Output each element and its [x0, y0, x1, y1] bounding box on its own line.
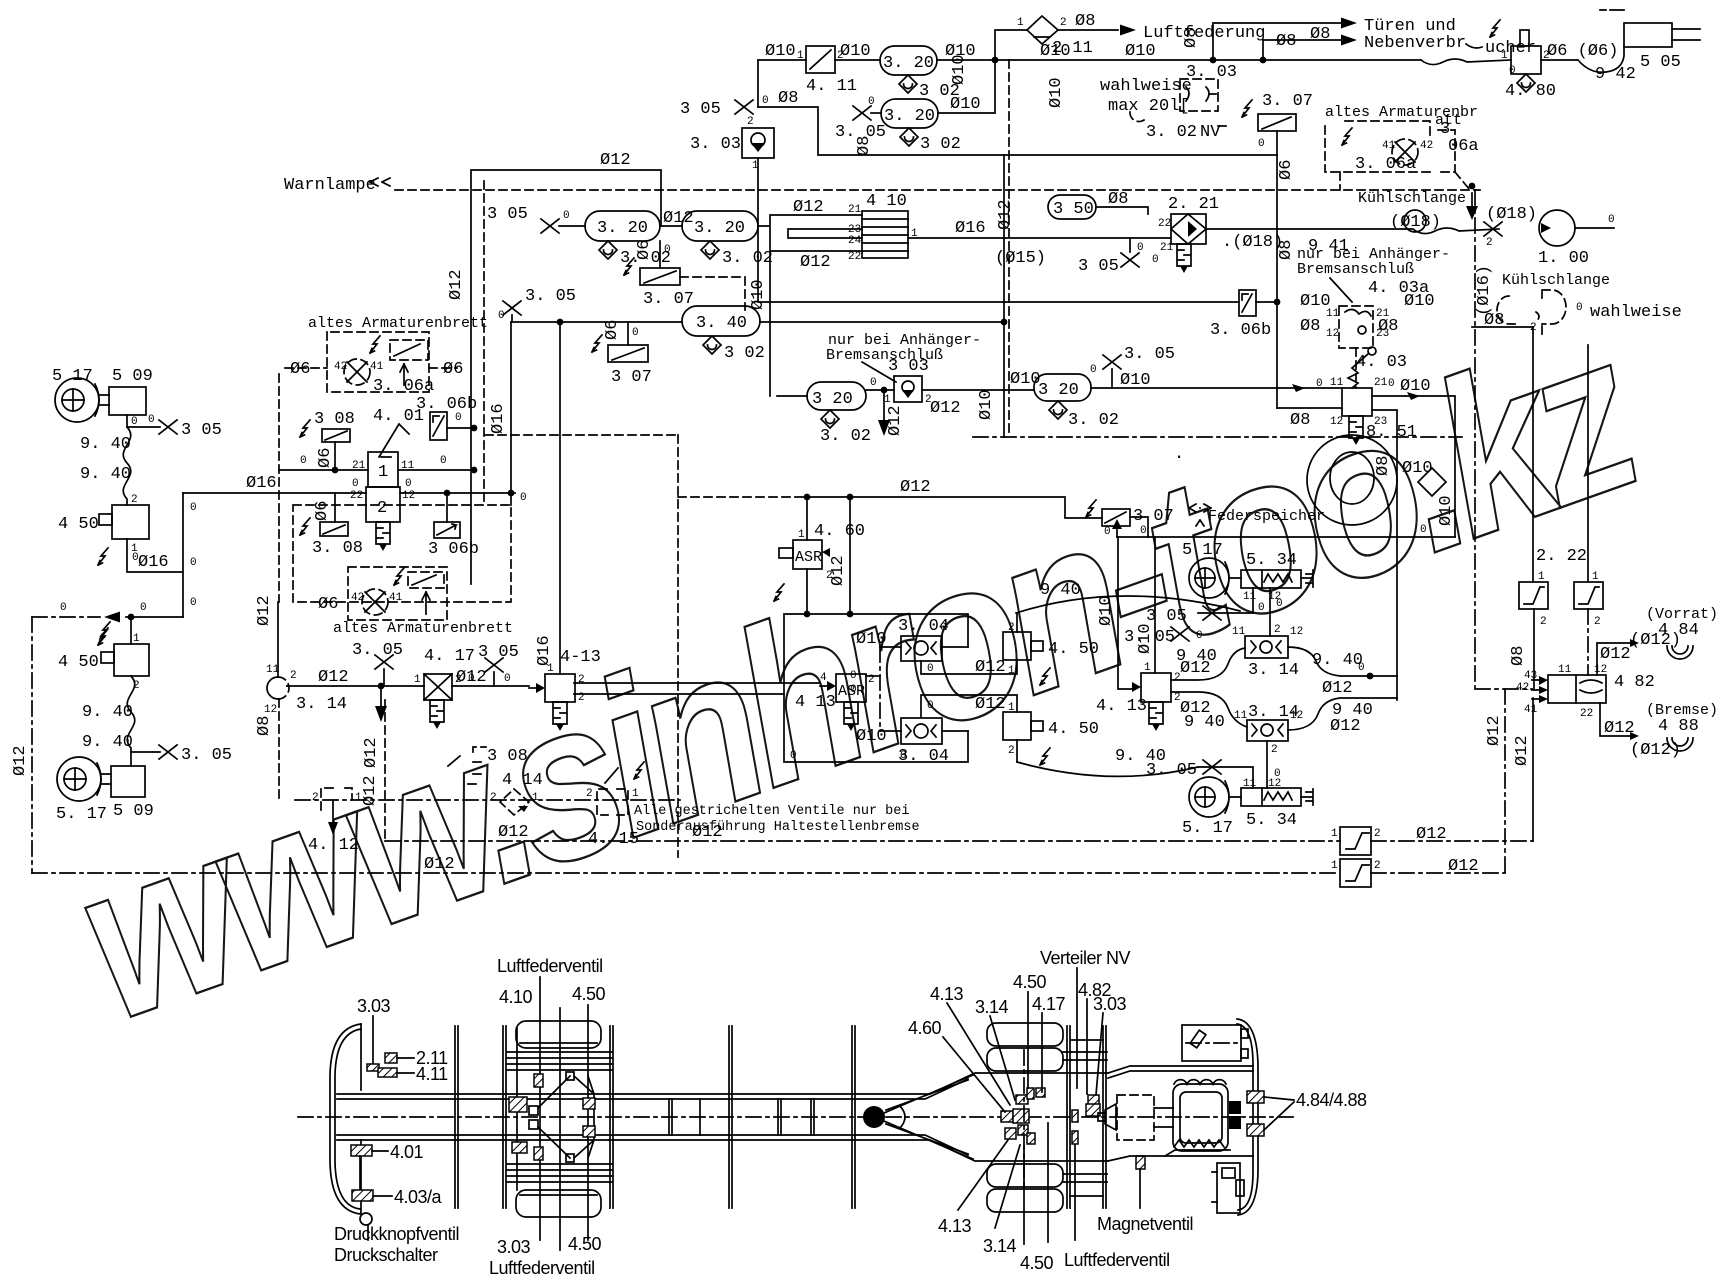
svg-text:12: 12 [1290, 626, 1303, 638]
valve 4.11 [806, 46, 835, 73]
svg-text:21: 21 [1160, 242, 1174, 254]
right spring lines [1063, 1040, 1107, 1196]
svg-text:0: 0 [140, 602, 147, 614]
svg-text:3. 07: 3. 07 [643, 290, 694, 309]
hook vorrat [1667, 646, 1693, 659]
svg-text:4.50: 4.50 [1013, 972, 1047, 992]
rails to 4.82 [1475, 190, 1532, 689]
svg-text:Ø6: Ø6 [443, 360, 463, 379]
svg-text:Ø12: Ø12 [424, 855, 455, 874]
test point 3.05g [131, 751, 160, 753]
federspeicher chamber a [1307, 435, 1397, 525]
svg-text:12: 12 [402, 490, 415, 502]
lamp 3.06a-left [344, 359, 370, 385]
svg-text:2: 2 [586, 788, 593, 800]
dashdot rail y800 [295, 799, 680, 801]
svg-text:9. 40: 9. 40 [80, 465, 131, 484]
valve 3.07d [1102, 509, 1130, 526]
svg-text:3. 06b: 3. 06b [416, 395, 477, 414]
cab bottom line [1108, 1150, 1253, 1161]
check valve 2.11 [1027, 16, 1058, 44]
valve 13.08 [468, 747, 486, 784]
svg-text:Ø10: Ø10 [856, 727, 887, 746]
node dot warn right [1469, 183, 1476, 190]
svg-text:2: 2 [1374, 860, 1381, 872]
svg-text:3. 05: 3. 05 [1146, 761, 1197, 780]
svg-text:42: 42 [1516, 682, 1529, 694]
svg-text:4.03/a: 4.03/a [394, 1187, 443, 1207]
central vertical solid [1003, 155, 1005, 437]
compressor 1.00 [1539, 210, 1575, 246]
svg-text:2. 22: 2. 22 [1536, 547, 1587, 566]
svg-text:Ø12: Ø12 [1448, 857, 1479, 876]
battery box [1217, 1163, 1240, 1213]
svg-text:Ø12: Ø12 [600, 151, 631, 170]
pump 5.17d [1189, 777, 1229, 817]
svg-text:2: 2 [490, 792, 497, 804]
svg-text:0: 0 [520, 492, 527, 504]
svg-text:22: 22 [1158, 218, 1171, 230]
svg-text:(Ø18): (Ø18) [1486, 205, 1537, 224]
svg-text:Ø8: Ø8 [1300, 317, 1320, 336]
wire to diamond 2.11 [995, 30, 1118, 60]
pump 5.17b [57, 757, 101, 801]
svg-text:3.03: 3.03 [497, 1237, 531, 1257]
svg-text:Kühlschlange: Kühlschlange [1502, 272, 1610, 289]
svg-text:Ø12: Ø12 [900, 478, 931, 497]
wire O16 bus y493 [183, 492, 515, 494]
svg-text:11: 11 [1330, 377, 1344, 389]
svg-text:0: 0 [850, 684, 857, 696]
svg-text:Federspeicher: Federspeicher [1208, 508, 1325, 525]
wire vorrat [1597, 643, 1630, 675]
svg-text:3.03: 3.03 [357, 996, 391, 1016]
svg-text:0: 0 [132, 552, 139, 564]
svg-text:1: 1 [378, 463, 388, 482]
svg-text:1: 1 [1008, 665, 1015, 677]
svg-text:Ø8: Ø8 [1276, 32, 1296, 51]
rear tandem wheels right [987, 1023, 1063, 1046]
svg-text:3 50: 3 50 [1053, 200, 1094, 219]
wires 4.13c feeds [1118, 537, 1155, 689]
svg-text:4 13: 4 13 [795, 693, 836, 712]
svg-text:Ø6: Ø6 [635, 240, 654, 260]
muffler 8.51 [1349, 416, 1363, 445]
drain 3.02a [899, 75, 917, 93]
svg-text:Bremsanschluß: Bremsanschluß [1297, 261, 1414, 278]
svg-text:Ø8: Ø8 [1509, 646, 1528, 666]
axle dashdot right [1023, 1050, 1025, 1188]
svg-text:Ø8: Ø8 [1075, 12, 1095, 31]
svg-text:0: 0 [1137, 242, 1144, 254]
valve 3.07b [640, 268, 680, 285]
svg-text:Ø12: Ø12 [1416, 825, 1447, 844]
svg-text:1: 1 [1008, 702, 1015, 714]
drain 3.02b [900, 128, 918, 146]
svg-text:3. 20: 3. 20 [694, 219, 745, 238]
drain 3.02e [703, 336, 721, 354]
valve 3.14R2 [1247, 720, 1288, 741]
svg-text:4 82: 4 82 [1614, 673, 1655, 692]
wire manifold loop [784, 614, 968, 762]
svg-text:Ø10: Ø10 [1437, 495, 1456, 526]
wire O12 mid [807, 497, 1102, 518]
valve 3.40 [682, 306, 760, 336]
svg-text:0: 0 [870, 377, 877, 389]
svg-text:0: 0 [455, 412, 462, 424]
drain 3.02c [599, 241, 617, 259]
svg-text:12: 12 [1326, 328, 1339, 340]
valve 3.06b-right [1239, 290, 1256, 316]
wire step [127, 493, 183, 617]
switch 3.06a-left [390, 340, 428, 360]
svg-text:Magnetventil: Magnetventil [1097, 1214, 1193, 1234]
svg-text:Ø10: Ø10 [1120, 371, 1151, 390]
svg-text:1: 1 [532, 792, 539, 804]
svg-text:0: 0 [1152, 254, 1159, 266]
svg-text:4. 50: 4. 50 [1048, 720, 1099, 739]
svg-text:0: 0 [352, 478, 359, 490]
svg-text:4.13: 4.13 [930, 984, 964, 1004]
svg-text:2: 2 [377, 499, 387, 518]
valve ASR 4.13b [836, 674, 866, 702]
check valve 3.03a [742, 128, 774, 158]
svg-text:12: 12 [1330, 416, 1343, 428]
valve 3.20c [585, 211, 660, 241]
hose 3.14R2 out [1288, 698, 1397, 730]
svg-text:Ø10: Ø10 [1010, 370, 1041, 389]
svg-text:Ø8: Ø8 [255, 716, 274, 736]
engine block [1173, 1084, 1228, 1151]
frame rail top [337, 1073, 1108, 1099]
svg-text:Ø16: Ø16 [489, 403, 508, 434]
svg-text:Ø12: Ø12 [800, 253, 831, 272]
hatch 4.84 [1247, 1091, 1264, 1103]
svg-text:4 50: 4 50 [58, 515, 99, 534]
svg-text:Ø10: Ø10 [840, 42, 871, 61]
hatch 4.01 [351, 1145, 372, 1156]
svg-text:5. 17: 5. 17 [56, 805, 107, 824]
svg-text:Ø16: Ø16 [535, 635, 554, 666]
svg-text:4.50: 4.50 [572, 984, 606, 1004]
svg-text:3. 05: 3. 05 [352, 641, 403, 660]
svg-text:1: 1 [1501, 50, 1508, 62]
svg-text:3. 05: 3. 05 [525, 287, 576, 306]
wire 3.50 out [1096, 207, 1148, 214]
svg-text:Ø12: Ø12 [1485, 715, 1504, 746]
svg-text:21: 21 [1374, 377, 1388, 389]
valve 3.20b [881, 99, 938, 128]
arrow Nebenverbraucher [1341, 35, 1357, 46]
svg-text:4-13: 4-13 [560, 648, 601, 667]
svg-text:2: 2 [868, 674, 875, 686]
svg-text:Verteiler NV: Verteiler NV [1040, 948, 1131, 968]
svg-text:0: 0 [790, 750, 797, 762]
svg-text:Ø16: Ø16 [955, 219, 986, 238]
wire twin lines [574, 683, 820, 694]
valve 3.06b-left-lower [446, 493, 448, 522]
svg-text:5. 34: 5. 34 [1246, 551, 1297, 570]
corner marks [1600, 9, 1624, 11]
svg-text:0: 0 [468, 673, 475, 685]
svg-text:41: 41 [1382, 140, 1396, 152]
central vertical dashed [1008, 60, 1010, 437]
svg-text:3. 20: 3. 20 [597, 219, 648, 238]
svg-text:2: 2 [826, 570, 833, 582]
svg-text:4.17: 4.17 [1032, 994, 1066, 1014]
spring pack left bottom [507, 1164, 612, 1182]
svg-text:2: 2 [1540, 616, 1547, 628]
valve 4.13c [1141, 673, 1171, 702]
svg-text:0: 0 [1388, 378, 1395, 390]
svg-text:1: 1 [632, 788, 639, 800]
svg-text:Ø10: Ø10 [749, 279, 768, 310]
svg-text:0: 0 [131, 416, 138, 428]
valve 4.12 [321, 788, 352, 812]
svg-text:3. 04: 3. 04 [898, 617, 949, 636]
wire 3.14R2 down [1266, 741, 1268, 788]
svg-text:Ø12: Ø12 [886, 405, 905, 436]
label federspeicher [1189, 504, 1211, 526]
svg-text:0: 0 [1090, 364, 1097, 376]
valve 2.22a [1519, 582, 1548, 609]
svg-text:2: 2 [578, 692, 585, 704]
svg-text:0: 0 [1258, 602, 1265, 614]
svg-text:3 05: 3 05 [680, 100, 721, 119]
wire 4.11 vertical [757, 60, 759, 107]
svg-text:Luftfederung: Luftfederung [1143, 24, 1265, 43]
drain 3.02d [701, 241, 719, 259]
svg-text:Luftfederventil: Luftfederventil [489, 1258, 595, 1278]
radiator box [1182, 1025, 1241, 1061]
svg-text:Ø12: Ø12 [1604, 719, 1635, 738]
valve 2.21 [1171, 214, 1206, 244]
valve rail box a [1340, 827, 1371, 855]
svg-text:41: 41 [370, 361, 384, 373]
svg-text:3.03: 3.03 [1093, 994, 1127, 1014]
wire O18 out [1206, 228, 1499, 234]
svg-text:42: 42 [334, 361, 347, 373]
wire row B [511, 321, 1004, 323]
svg-text:3 02: 3 02 [724, 344, 765, 363]
pump 5.17c [1189, 558, 1229, 598]
svg-text:4.84/4.88: 4.84/4.88 [1296, 1090, 1367, 1110]
svg-text:4. 60: 4. 60 [814, 522, 865, 541]
hose 9.42 [1541, 46, 1624, 72]
wire supply bus y60 [758, 59, 1421, 61]
svg-text:2: 2 [131, 494, 138, 506]
svg-text:3. 06a: 3. 06a [1355, 155, 1416, 174]
test point 3.05i [375, 655, 393, 669]
dashed wire Warnlampe [395, 189, 1480, 191]
arrow Luftfederung [1120, 25, 1136, 36]
valve 3.14L [267, 677, 278, 699]
manifold 4.10 [862, 211, 908, 258]
svg-text:Ø12: Ø12 [996, 199, 1015, 230]
druckknopf circle [360, 1213, 372, 1225]
svg-text:5 17: 5 17 [1182, 541, 1223, 560]
svg-text:max 20l[: max 20l[ [1108, 97, 1190, 116]
wire 3.20b out [938, 60, 995, 113]
valve 3.07c [608, 345, 648, 362]
wire O10 row [1091, 387, 1342, 389]
svg-text:Kühlschlange: Kühlschlange [1358, 190, 1466, 207]
hose 9.40 upper arc [1016, 596, 1240, 613]
svg-text:3 08: 3 08 [487, 747, 528, 766]
bus y617 with arrow [126, 616, 183, 618]
valve 4.50a [112, 505, 149, 539]
svg-text:2: 2 [312, 792, 319, 804]
svg-text:4.13: 4.13 [938, 1216, 972, 1236]
muffler 2.21 [1177, 244, 1191, 273]
svg-text:2. 21: 2. 21 [1168, 195, 1219, 214]
svg-text:Ø8: Ø8 [1378, 317, 1398, 336]
svg-text:0: 0 [1358, 662, 1365, 674]
svg-text:1: 1 [1144, 662, 1151, 674]
svg-text:4.50: 4.50 [568, 1234, 602, 1254]
svg-text:Nebenverbr: Nebenverbr [1364, 34, 1466, 53]
svg-text:1: 1 [1538, 571, 1545, 583]
svg-text:Ø12: Ø12 [793, 198, 824, 217]
valve 3.04b [901, 718, 942, 744]
svg-text:1: 1 [414, 674, 421, 686]
valve 3.20d [682, 211, 758, 241]
node black arrow down [881, 387, 888, 394]
svg-text:5. 34: 5. 34 [1246, 811, 1297, 830]
svg-text:8. 51: 8. 51 [1366, 423, 1417, 442]
svg-text:9. 40: 9. 40 [1312, 651, 1363, 670]
svg-text:11: 11 [1243, 778, 1257, 790]
svg-text:Ø10: Ø10 [950, 54, 969, 85]
wire V x560 [559, 322, 561, 674]
valve 3.20f [1034, 374, 1091, 401]
svg-text:3 06b: 3 06b [428, 540, 479, 559]
svg-text:Ø12: Ø12 [1322, 679, 1353, 698]
svg-text:Ø10: Ø10 [1300, 292, 1331, 311]
svg-text:(Ø15): (Ø15) [995, 249, 1046, 268]
svg-text:5 17: 5 17 [52, 367, 93, 386]
spring pack left top [507, 1052, 612, 1070]
suspension X links [529, 1106, 538, 1115]
svg-text:4 14: 4 14 [502, 771, 543, 790]
svg-text:2: 2 [1060, 17, 1067, 29]
svg-text:Ø12: Ø12 [11, 745, 30, 776]
truck rear bumper arc [330, 1024, 361, 1214]
ladder rungs [669, 1099, 814, 1135]
svg-text:Ø10: Ø10 [1097, 595, 1116, 626]
svg-text:Ø12: Ø12 [362, 737, 381, 768]
truck centerline [298, 1116, 1297, 1118]
valve block 4.01 [368, 452, 398, 487]
test point 3.05c [541, 219, 559, 233]
leader lines cluster [943, 992, 1103, 1112]
svg-text:4 50: 4 50 [58, 653, 99, 672]
hose to 3.14R1 [1171, 648, 1245, 680]
svg-text:2: 2 [1530, 322, 1537, 334]
svg-text:0: 0 [405, 478, 412, 490]
reservoir 5.05 [1624, 23, 1672, 47]
hatch 4.03a [352, 1190, 373, 1201]
svg-text:Ø12: Ø12 [255, 595, 274, 626]
svg-text:Sonderausführung Haltestellenb: Sonderausführung Haltestellenbremse [636, 820, 920, 835]
leaders bottom cluster [958, 1123, 1075, 1244]
svg-text:Ø6: Ø6 [603, 320, 622, 340]
svg-text:4.60: 4.60 [908, 1018, 942, 1038]
wire down [127, 415, 160, 427]
svg-text:0: 0 [190, 597, 197, 609]
svg-text:2: 2 [747, 116, 754, 128]
svg-text:11: 11 [1243, 591, 1257, 603]
svg-text:22: 22 [350, 490, 363, 502]
rail left dashdot [31, 617, 33, 873]
svg-text:3. 08: 3. 08 [312, 539, 363, 558]
svg-text:4. 15: 4. 15 [588, 830, 639, 849]
svg-text:Ø8: Ø8 [1310, 25, 1330, 44]
svg-text:Ø10: Ø10 [1404, 292, 1435, 311]
svg-text:0: 0 [1276, 598, 1283, 610]
svg-text:0: 0 [1316, 378, 1323, 390]
svg-text:Ø12: Ø12 [663, 209, 694, 228]
svg-text:0: 0 [190, 557, 197, 569]
svg-text:Druckschalter: Druckschalter [334, 1245, 438, 1265]
svg-text:2: 2 [1271, 744, 1278, 756]
svg-text:12: 12 [1290, 710, 1303, 722]
svg-text:3. 20: 3. 20 [884, 107, 935, 126]
svg-text:.: . [1174, 445, 1184, 464]
svg-text:2: 2 [1594, 616, 1601, 628]
svg-text:5 09: 5 09 [112, 367, 153, 386]
svg-text:22: 22 [1580, 708, 1593, 720]
wire O16 [908, 237, 1171, 239]
svg-text:2: 2 [1008, 622, 1015, 634]
svg-text:altes Armaturenbrett: altes Armaturenbrett [333, 620, 513, 637]
protect valve 4.82 [1548, 675, 1606, 703]
svg-text:9. 40: 9. 40 [82, 733, 133, 752]
svg-text:Ø16: Ø16 [246, 474, 277, 493]
reservoir 5.09b [111, 766, 145, 797]
drain 3.02g [1049, 401, 1067, 419]
wire bremse [1600, 703, 1630, 736]
svg-text:3 02: 3 02 [920, 135, 961, 154]
svg-text:3. 02: 3. 02 [1146, 123, 1197, 142]
pump 5.17a [55, 378, 99, 422]
ltg [98, 548, 108, 565]
svg-text:.(Ø18): .(Ø18) [1222, 233, 1283, 252]
svg-text:4. 11: 4. 11 [806, 77, 857, 96]
wire squiggle to 4.80 [1421, 59, 1511, 65]
dashdot rail y841 [385, 840, 1533, 842]
svg-text:Ø12: Ø12 [975, 658, 1006, 677]
svg-text:Ø12: Ø12 [930, 399, 961, 418]
panel altes Armaturenbrett lower [293, 505, 511, 602]
svg-text:Ø12: Ø12 [318, 668, 349, 687]
svg-text:Ø12: Ø12 [1330, 717, 1361, 736]
svg-text:43: 43 [1524, 670, 1537, 682]
wire O12 top-left [471, 170, 661, 584]
brake cyl 5.34b [1241, 788, 1301, 806]
svg-text:wahlweise: wahlweise [1590, 303, 1682, 322]
svg-text:0: 0 [1104, 526, 1111, 538]
rear axle wheels left [516, 1021, 601, 1048]
svg-text:3. 14: 3. 14 [296, 695, 347, 714]
test point 3.05j [485, 658, 503, 672]
wire 4.03 out [1372, 396, 1455, 700]
svg-text:0: 0 [1196, 630, 1203, 642]
svg-text:0: 0 [504, 673, 511, 685]
hose to 3.14R2 [1171, 692, 1247, 727]
valve 4.50d [1003, 712, 1031, 740]
svg-text:Ø8: Ø8 [778, 89, 798, 108]
